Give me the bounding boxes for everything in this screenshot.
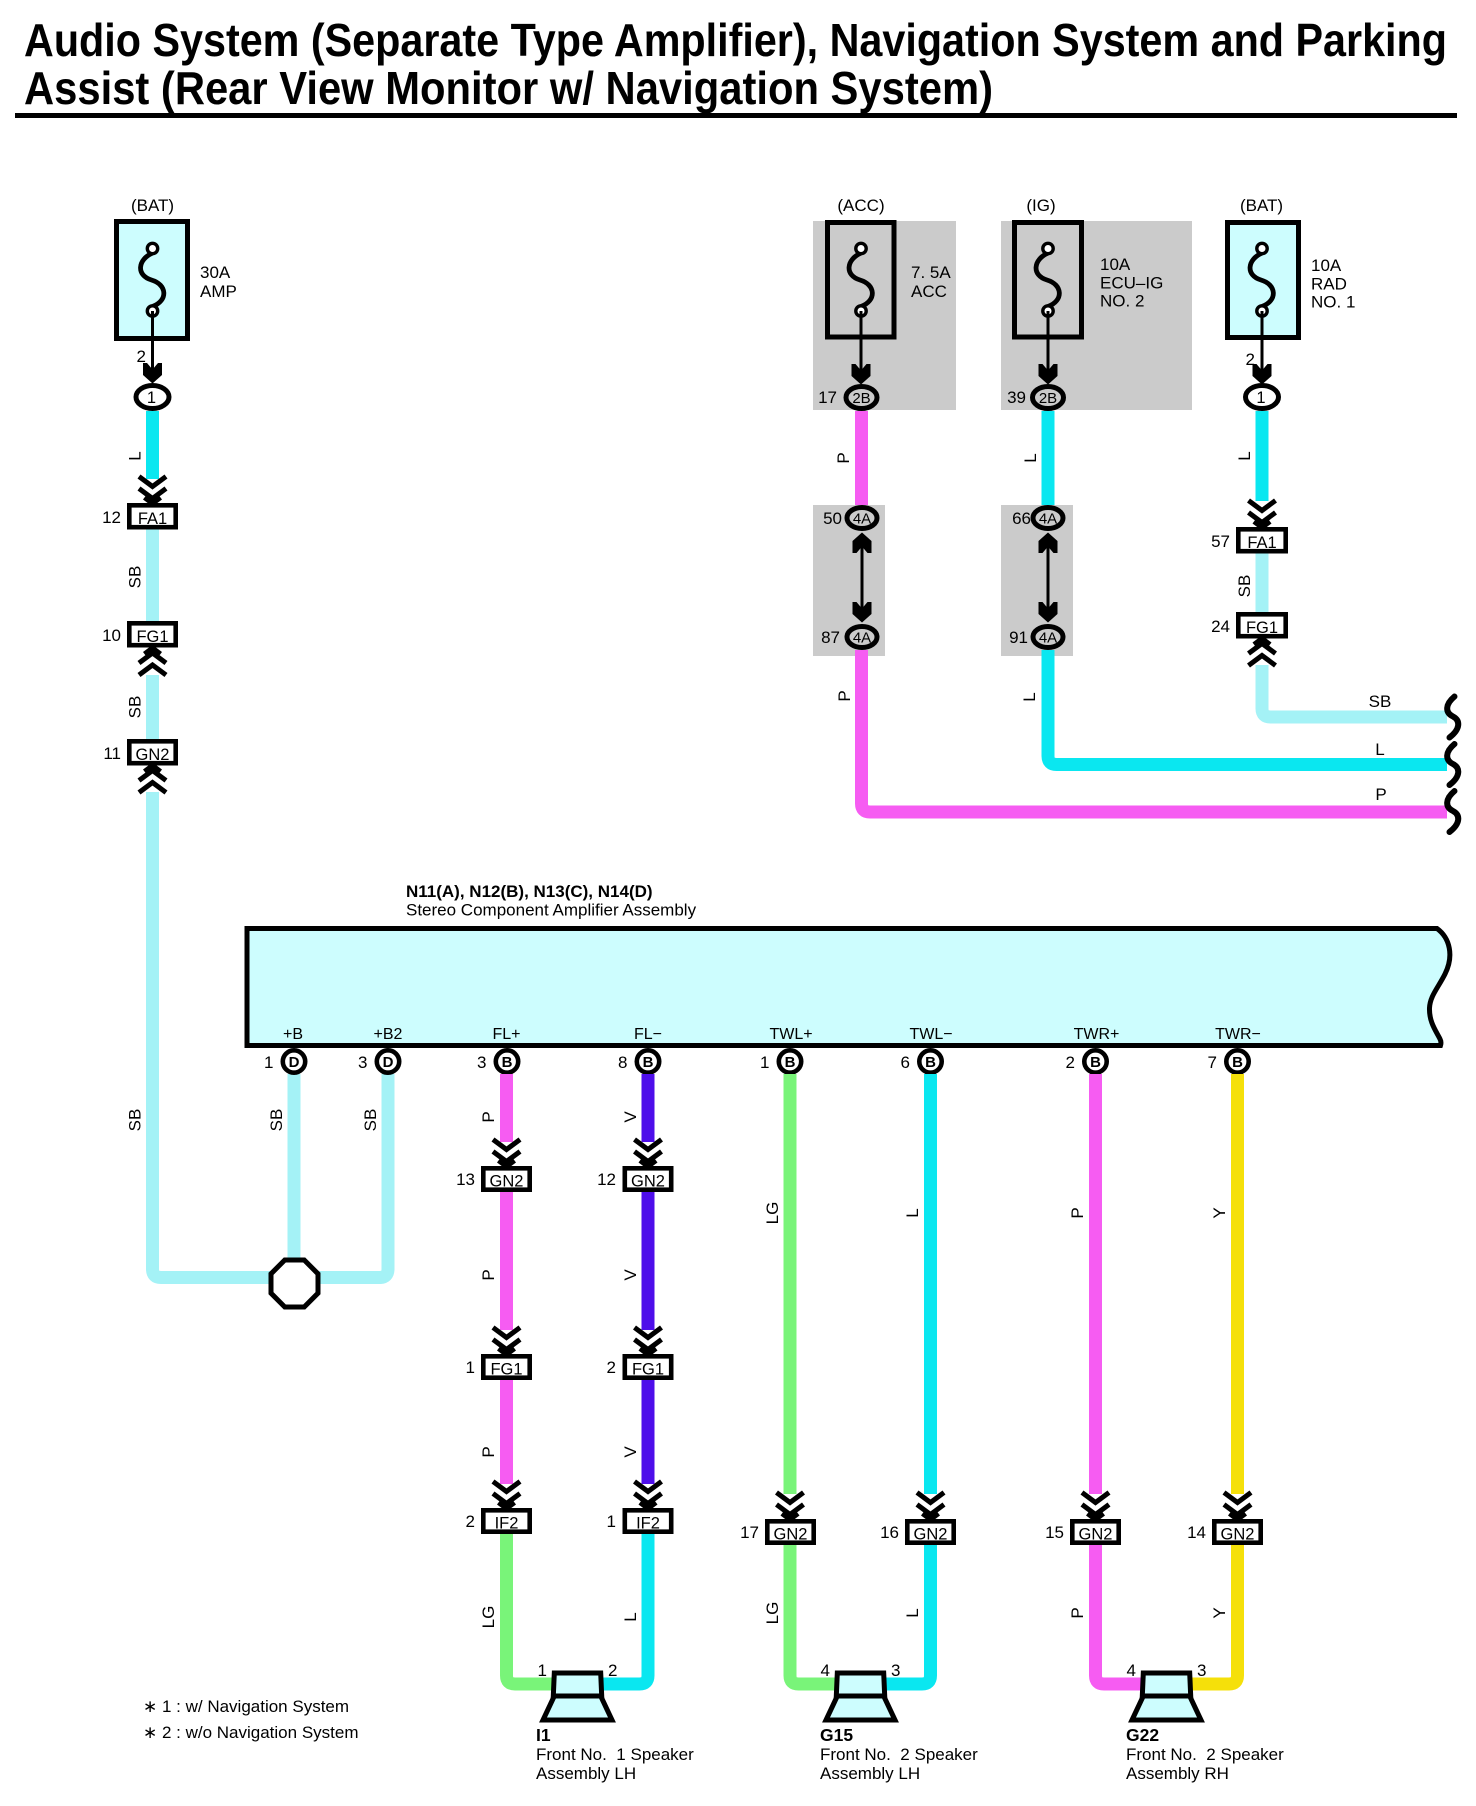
arrow up to 4A 50 bbox=[853, 533, 872, 554]
svg-text:Front No. 2 Speaker: Front No. 2 Speaker bbox=[820, 1745, 978, 1764]
svg-text:Y: Y bbox=[1210, 1607, 1229, 1618]
connector FG1 pin 2 bbox=[607, 1356, 672, 1378]
chevrons out of FG1 bbox=[1249, 639, 1276, 666]
svg-text:Assembly LH: Assembly LH bbox=[536, 1764, 636, 1783]
svg-text:TWR+: TWR+ bbox=[1074, 1026, 1120, 1043]
svg-text:B: B bbox=[643, 1054, 654, 1071]
svg-text:P: P bbox=[479, 1111, 498, 1122]
svg-text:SB: SB bbox=[126, 566, 145, 589]
chevrons out of GN2 bbox=[139, 766, 166, 793]
svg-text:B: B bbox=[502, 1054, 513, 1071]
svg-text:P: P bbox=[834, 452, 853, 463]
svg-text:L: L bbox=[1021, 453, 1040, 462]
speaker I1 bbox=[543, 1673, 612, 1720]
connector GN2 pin 15 bbox=[1045, 1521, 1119, 1543]
pin 3 circle B (FL+) bbox=[477, 1050, 518, 1072]
svg-text:SB: SB bbox=[126, 1109, 145, 1132]
connector GN2 pin 14 bbox=[1187, 1521, 1261, 1543]
wire SB +B branch bbox=[288, 1074, 301, 1260]
wire L from connector 1 to FA1 bbox=[146, 411, 159, 479]
pin 6 circle B (TWL-) bbox=[901, 1050, 942, 1072]
svg-text:FL+: FL+ bbox=[492, 1026, 520, 1043]
svg-text:3: 3 bbox=[358, 1053, 367, 1072]
svg-text:17: 17 bbox=[740, 1523, 759, 1542]
wire P TWR+ to GN2 bbox=[1089, 1074, 1102, 1494]
wire break squiggle SB bbox=[1447, 697, 1458, 738]
svg-text:Stereo Component Amplifier Ass: Stereo Component Amplifier Assembly bbox=[406, 901, 697, 920]
svg-text:SB: SB bbox=[1369, 692, 1392, 711]
wire P GN2 to speaker G22 bbox=[1096, 1545, 1142, 1684]
connector 1 (RAD) bbox=[1246, 386, 1279, 409]
svg-text:39: 39 bbox=[1007, 388, 1026, 407]
svg-text:FG1: FG1 bbox=[490, 1361, 522, 1379]
svg-text:LG: LG bbox=[763, 1202, 782, 1225]
chevrons into FA1 bbox=[1249, 501, 1276, 528]
wire LG IF2 to speaker I1 bbox=[507, 1534, 553, 1684]
connector 4A pin 66 bbox=[1012, 508, 1063, 529]
chevrons out of FG1 bbox=[139, 648, 166, 675]
svg-text:FL−: FL− bbox=[634, 1026, 662, 1043]
svg-text:SB: SB bbox=[361, 1109, 380, 1132]
wire link 4A to 4A bbox=[1047, 544, 1050, 610]
speaker G22 bbox=[1132, 1673, 1201, 1720]
svg-text:Assembly RH: Assembly RH bbox=[1126, 1764, 1229, 1783]
chevrons into GN2 bbox=[1224, 1493, 1251, 1520]
svg-text:NO. 2: NO. 2 bbox=[1100, 292, 1144, 311]
svg-text:15: 15 bbox=[1045, 1523, 1064, 1542]
svg-text:G15: G15 bbox=[820, 1725, 853, 1745]
wire P FG1 to IF2 bbox=[500, 1380, 513, 1484]
wire Y TWR- to GN2 bbox=[1231, 1074, 1244, 1494]
svg-text:11: 11 bbox=[103, 744, 121, 763]
connector 2B pin 17 bbox=[818, 387, 877, 409]
svg-text:Assist (Rear View Monitor w/ N: Assist (Rear View Monitor w/ Navigation … bbox=[24, 62, 993, 114]
svg-text:14: 14 bbox=[1187, 1523, 1206, 1542]
connector IF2 pin 1 bbox=[607, 1510, 672, 1532]
gray block IG 4A junction bbox=[1001, 505, 1073, 656]
chevrons into GN2 bbox=[493, 1140, 520, 1167]
wire LG TWL+ to GN2 bbox=[784, 1074, 797, 1494]
speaker I1 caption bbox=[536, 1725, 694, 1783]
svg-text:4A: 4A bbox=[1039, 511, 1057, 528]
wire L IF2 to speaker I1 bbox=[603, 1534, 648, 1684]
chevrons into FG1 bbox=[635, 1328, 662, 1355]
svg-text:P: P bbox=[1375, 785, 1386, 804]
svg-text:6: 6 bbox=[901, 1053, 910, 1072]
arrow up to 4A 66 bbox=[1039, 533, 1058, 554]
connector FG1 pin 24 bbox=[1211, 614, 1286, 637]
svg-text:GN2: GN2 bbox=[631, 1173, 665, 1191]
wire SB long run to amplifier +B / +B2 bbox=[153, 792, 389, 1278]
svg-text:8: 8 bbox=[618, 1053, 627, 1072]
connector GN2 pin 16 bbox=[880, 1521, 954, 1543]
svg-text:10: 10 bbox=[102, 626, 121, 645]
wire V GN2 to FG1 bbox=[642, 1192, 655, 1330]
wire ACC fuse lead bbox=[860, 311, 863, 373]
svg-text:TWR−: TWR− bbox=[1215, 1026, 1261, 1043]
svg-text:4: 4 bbox=[821, 1661, 830, 1680]
chevrons into IF2 bbox=[493, 1482, 520, 1509]
svg-text:3: 3 bbox=[477, 1053, 486, 1072]
connector 4A pin 50 bbox=[823, 508, 877, 529]
svg-text:1: 1 bbox=[760, 1053, 769, 1072]
fuse 10A ECU-IG NO.2 bbox=[1015, 223, 1164, 338]
svg-text:2B: 2B bbox=[852, 390, 870, 407]
svg-text:I1: I1 bbox=[536, 1725, 551, 1745]
wire V FG1 to IF2 bbox=[642, 1380, 655, 1484]
page title bbox=[15, 14, 1457, 118]
svg-text:12: 12 bbox=[597, 1170, 616, 1189]
svg-text:91: 91 bbox=[1009, 628, 1028, 647]
wire P GN2 to FG1 bbox=[500, 1192, 513, 1330]
connector GN2 pin 17 bbox=[740, 1521, 814, 1543]
svg-text:L: L bbox=[1235, 451, 1254, 460]
svg-text:1: 1 bbox=[147, 389, 156, 407]
svg-text:L: L bbox=[126, 451, 145, 460]
svg-text:3: 3 bbox=[1197, 1661, 1206, 1680]
svg-text:P: P bbox=[1068, 1607, 1087, 1618]
fuse 10A RAD NO.1 bbox=[1228, 223, 1356, 338]
wire L to right edge bbox=[1048, 650, 1447, 765]
wire P to right edge bbox=[862, 650, 1448, 812]
svg-text:+B: +B bbox=[283, 1026, 303, 1043]
pin 8 circle B (FL-) bbox=[618, 1050, 659, 1072]
svg-text:RAD: RAD bbox=[1311, 275, 1347, 294]
pin 3 circle D (+B2) bbox=[358, 1050, 399, 1072]
svg-text:4A: 4A bbox=[1039, 630, 1057, 647]
svg-text:ECU–IG: ECU–IG bbox=[1100, 274, 1163, 293]
svg-text:1: 1 bbox=[1256, 389, 1265, 407]
wire SB FA1 to FG1 bbox=[1256, 554, 1269, 613]
svg-text:1: 1 bbox=[607, 1512, 616, 1531]
svg-text:NO. 1: NO. 1 bbox=[1311, 293, 1355, 312]
connector FA1 pin 12 bbox=[102, 505, 176, 528]
svg-text:GN2: GN2 bbox=[490, 1173, 524, 1191]
svg-text:P: P bbox=[479, 1269, 498, 1280]
pin 7 circle B (TWR-) bbox=[1208, 1050, 1249, 1072]
svg-text:16: 16 bbox=[880, 1523, 899, 1542]
svg-text:L: L bbox=[621, 1612, 640, 1621]
wire AMP fuse lead bbox=[151, 311, 154, 372]
svg-text:FA1: FA1 bbox=[1247, 534, 1276, 552]
pin 1 circle B (TWL+) bbox=[760, 1050, 801, 1072]
svg-text:2B: 2B bbox=[1039, 390, 1057, 407]
svg-text:Audio System (Separate Type Am: Audio System (Separate Type Amplifier), … bbox=[24, 14, 1447, 66]
connector 4A pin 91 bbox=[1009, 627, 1063, 648]
wire break squiggle P bbox=[1447, 791, 1458, 832]
svg-text:B: B bbox=[785, 1054, 796, 1071]
svg-text:∗ 1 : w/ Navigation System: ∗ 1 : w/ Navigation System bbox=[143, 1697, 349, 1716]
svg-text:GN2: GN2 bbox=[1079, 1526, 1113, 1544]
wire break squiggle L bbox=[1447, 744, 1458, 785]
svg-text:TWL+: TWL+ bbox=[769, 1026, 812, 1043]
svg-text:P: P bbox=[479, 1446, 498, 1457]
svg-text:1: 1 bbox=[466, 1358, 475, 1377]
svg-text:GN2: GN2 bbox=[914, 1526, 948, 1544]
svg-text:Assembly LH: Assembly LH bbox=[820, 1764, 920, 1783]
amplifier N11-N14 Stereo Component Amplifier Assembly bbox=[247, 882, 1450, 1046]
wire SB FA1 to FG1 bbox=[146, 530, 159, 622]
svg-text:GN2: GN2 bbox=[136, 746, 170, 764]
svg-text:L: L bbox=[903, 1208, 922, 1217]
arrow into connector 1 bbox=[143, 363, 162, 384]
connector GN2 pin 11 bbox=[103, 741, 175, 764]
svg-text:87: 87 bbox=[821, 628, 840, 647]
wire L 2B to 4A bbox=[1042, 411, 1055, 505]
svg-text:V: V bbox=[621, 1111, 640, 1123]
svg-text:L: L bbox=[1020, 692, 1039, 701]
wire Y GN2 to speaker G22 bbox=[1192, 1545, 1238, 1684]
svg-text:50: 50 bbox=[823, 509, 842, 528]
svg-text:ACC: ACC bbox=[911, 282, 947, 301]
chevrons into IF2 bbox=[635, 1482, 662, 1509]
svg-text:GN2: GN2 bbox=[1221, 1526, 1255, 1544]
svg-text:66: 66 bbox=[1012, 509, 1031, 528]
speaker G15 caption bbox=[820, 1725, 978, 1783]
wire L TWL- to GN2 bbox=[924, 1074, 937, 1494]
speaker G15 bbox=[826, 1673, 895, 1720]
svg-text:P: P bbox=[1068, 1207, 1087, 1218]
svg-text:FG1: FG1 bbox=[136, 628, 168, 646]
gray block ACC 4A junction bbox=[813, 505, 885, 656]
svg-text:(BAT): (BAT) bbox=[1240, 196, 1283, 215]
arrow down to 4A 91 bbox=[1039, 602, 1058, 623]
svg-text:FG1: FG1 bbox=[1246, 619, 1278, 637]
wire LG GN2 to speaker G15 bbox=[790, 1545, 835, 1684]
svg-text:D: D bbox=[383, 1054, 394, 1071]
chevrons into GN2 bbox=[917, 1493, 944, 1520]
connector IF2 pin 2 bbox=[466, 1510, 530, 1532]
connector GN2 pin 13 bbox=[456, 1168, 530, 1190]
svg-text:B: B bbox=[1232, 1054, 1243, 1071]
svg-text:24: 24 bbox=[1211, 617, 1230, 636]
svg-text:2: 2 bbox=[1066, 1053, 1075, 1072]
svg-text:10A: 10A bbox=[1100, 255, 1131, 274]
chevrons into FG1 bbox=[493, 1328, 520, 1355]
connector 1 (AMP) bbox=[136, 386, 169, 409]
arrow into connector 1 bbox=[1253, 364, 1272, 385]
chevrons into FA1 bbox=[139, 477, 166, 504]
svg-text:(ACC): (ACC) bbox=[837, 196, 884, 215]
svg-text:GN2: GN2 bbox=[774, 1526, 808, 1544]
svg-text:SB: SB bbox=[267, 1109, 286, 1132]
svg-text:SB: SB bbox=[126, 696, 145, 719]
connector FG1 pin 10 bbox=[102, 623, 176, 646]
svg-text:B: B bbox=[1090, 1054, 1101, 1071]
chevrons into GN2 bbox=[1082, 1493, 1109, 1520]
svg-text:∗ 2 : w/o Navigation System: ∗ 2 : w/o Navigation System bbox=[143, 1723, 359, 1742]
svg-text:P: P bbox=[835, 690, 854, 701]
svg-text:4: 4 bbox=[1127, 1661, 1136, 1680]
svg-text:LG: LG bbox=[763, 1602, 782, 1625]
svg-text:V: V bbox=[621, 1446, 640, 1458]
svg-text:SB: SB bbox=[1235, 575, 1254, 598]
svg-text:L: L bbox=[1375, 740, 1384, 759]
svg-text:N11(A), N12(B), N13(C), N14(D): N11(A), N12(B), N13(C), N14(D) bbox=[406, 882, 653, 901]
svg-text:B: B bbox=[925, 1054, 936, 1071]
svg-text:2: 2 bbox=[466, 1512, 475, 1531]
wire link 4A to 4A bbox=[861, 544, 864, 610]
svg-text:V: V bbox=[621, 1269, 640, 1281]
svg-text:30A: 30A bbox=[200, 263, 231, 282]
svg-text:4A: 4A bbox=[853, 511, 871, 528]
svg-text:Y: Y bbox=[1210, 1207, 1229, 1218]
arrow into connector 2B bbox=[852, 364, 871, 385]
svg-text:AMP: AMP bbox=[200, 282, 237, 301]
arrow down to 4A 87 bbox=[853, 602, 872, 623]
wire L GN2 to speaker G15 bbox=[886, 1545, 931, 1684]
svg-text:Front No. 2 Speaker: Front No. 2 Speaker bbox=[1126, 1745, 1284, 1764]
gray block ACC fuse bbox=[813, 221, 956, 410]
fuse 30A AMP bbox=[117, 222, 237, 339]
wire P FL+ to GN2 bbox=[500, 1074, 513, 1142]
pin 1 circle D (+B) bbox=[264, 1050, 305, 1072]
junction octagon bbox=[271, 1260, 318, 1307]
svg-text:2: 2 bbox=[607, 1358, 616, 1377]
wire IG fuse lead bbox=[1047, 311, 1050, 373]
wire V FL- to GN2 bbox=[642, 1074, 655, 1142]
svg-text:57: 57 bbox=[1211, 532, 1230, 551]
chevrons into GN2 bbox=[635, 1140, 662, 1167]
wire RAD fuse lead bbox=[1261, 311, 1264, 372]
chevrons into GN2 bbox=[777, 1493, 804, 1520]
fuse 7.5A ACC bbox=[828, 223, 952, 338]
wire SB FG1 to GN2 bbox=[146, 675, 159, 739]
svg-text:2: 2 bbox=[608, 1661, 617, 1680]
svg-text:G22: G22 bbox=[1126, 1725, 1159, 1745]
svg-text:L: L bbox=[903, 1608, 922, 1617]
svg-text:IF2: IF2 bbox=[636, 1515, 660, 1533]
svg-text:LG: LG bbox=[479, 1606, 498, 1629]
svg-text:13: 13 bbox=[456, 1170, 475, 1189]
connector FA1 pin 57 bbox=[1211, 529, 1286, 552]
svg-text:FG1: FG1 bbox=[632, 1361, 664, 1379]
svg-text:1: 1 bbox=[264, 1053, 273, 1072]
svg-text:TWL−: TWL− bbox=[909, 1026, 952, 1043]
connector 2B pin 39 bbox=[1007, 387, 1063, 409]
svg-text:17: 17 bbox=[818, 388, 837, 407]
svg-text:D: D bbox=[289, 1054, 300, 1071]
connector FG1 pin 1 bbox=[466, 1356, 530, 1378]
connector 4A pin 87 bbox=[821, 627, 877, 648]
wire L connector 1 to FA1 bbox=[1256, 411, 1269, 501]
pin 2 circle B (TWR+) bbox=[1066, 1050, 1107, 1072]
gray block IG fuse bbox=[1001, 221, 1192, 410]
wire P 2B to 4A bbox=[855, 411, 868, 505]
svg-text:(BAT): (BAT) bbox=[131, 196, 174, 215]
svg-text:1: 1 bbox=[538, 1661, 547, 1680]
svg-text:3: 3 bbox=[891, 1661, 900, 1680]
svg-text:FA1: FA1 bbox=[138, 510, 167, 528]
arrow into connector 2B bbox=[1039, 364, 1058, 385]
svg-text:4A: 4A bbox=[853, 630, 871, 647]
svg-text:10A: 10A bbox=[1311, 256, 1342, 275]
speaker G22 caption bbox=[1126, 1725, 1284, 1783]
svg-text:12: 12 bbox=[102, 508, 121, 527]
svg-text:7: 7 bbox=[1208, 1053, 1217, 1072]
svg-text:7. 5A: 7. 5A bbox=[911, 263, 951, 282]
wire SB to right edge bbox=[1262, 665, 1447, 717]
svg-text:IF2: IF2 bbox=[495, 1515, 519, 1533]
svg-text:+B2: +B2 bbox=[374, 1026, 403, 1043]
svg-text:Front No. 1 Speaker: Front No. 1 Speaker bbox=[536, 1745, 694, 1764]
svg-text:(IG): (IG) bbox=[1026, 196, 1055, 215]
connector GN2 pin 12 bbox=[597, 1168, 671, 1190]
